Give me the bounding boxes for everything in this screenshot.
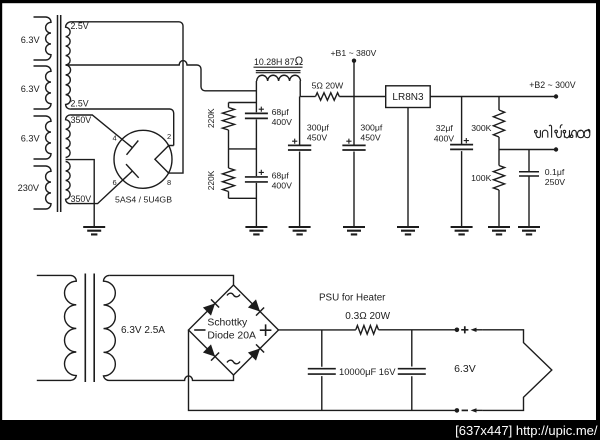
wire: output bracket chevron: [482, 330, 551, 411]
plus sign 300uf #1: [292, 139, 297, 144]
ground (32uf): [451, 227, 473, 234]
plus sign heater output: [461, 326, 468, 333]
svg-text:400V: 400V: [434, 133, 454, 143]
arrow tail (+ output): [477, 329, 483, 331]
svg-text:2.5V: 2.5V: [71, 99, 89, 109]
inductor L1 coil: [257, 75, 301, 81]
diode D3 (left to bottom): [203, 344, 215, 356]
T1 primary winding 230V (group 4): [34, 166, 52, 209]
capacitor 0.1uf plates: [519, 172, 539, 176]
svg-text:300μf: 300μf: [360, 123, 383, 133]
svg-text:6.3V: 6.3V: [21, 84, 41, 94]
svg-text:0.3Ω 20W: 0.3Ω 20W: [345, 311, 390, 322]
plus sign 300uf #2: [346, 139, 351, 144]
capacitor 300uf #2 plates: [342, 145, 365, 150]
svg-text:68μf: 68μf: [272, 107, 290, 117]
capacitor C1 68uf plates: [245, 113, 268, 118]
tube cathode/filament chevron (pins 2,8): [155, 146, 169, 174]
svg-text:10.28H 87Ω: 10.28H 87Ω: [254, 56, 304, 68]
T1 primary winding 6.3V (group 2): [34, 66, 52, 109]
svg-text:68μf: 68μf: [272, 170, 290, 180]
svg-text:0.1μf: 0.1μf: [545, 167, 565, 177]
wire: 350V center tap to ground: [66, 160, 95, 227]
T1 secondary 350V bottom winding: [66, 162, 71, 204]
wire: LR8N3 ground leg: [407, 108, 409, 228]
svg-text:6: 6: [113, 178, 117, 187]
T2 core: [85, 274, 94, 383]
capacitor 0.1uf branch: [528, 150, 530, 228]
ground (LR8N3): [397, 227, 419, 234]
svg-text:Schottky: Schottky: [207, 317, 248, 328]
svg-text:300μf: 300μf: [307, 123, 330, 133]
svg-text:[637x447] http://upic.me/: [637x447] http://upic.me/: [455, 423, 598, 438]
capacitor C2 68uf plates: [245, 177, 268, 182]
T2 secondary winding: [104, 275, 116, 380]
svg-text:10000μF 16V: 10000μF 16V: [339, 366, 396, 377]
capacitor 300uf #1 plates: [288, 145, 311, 150]
svg-text:8: 8: [167, 178, 171, 187]
wire: 2.5V top lead to pin 8 vertical: [71, 22, 183, 173]
arrow tail (- output): [477, 409, 483, 411]
wire: divider junction to node: [499, 149, 556, 151]
page border left: [0, 0, 2, 440]
svg-text:6.3V: 6.3V: [454, 363, 476, 375]
svg-text:PSU for Heater: PSU for Heater: [319, 293, 386, 304]
svg-text:LR8N3: LR8N3: [392, 92, 424, 103]
node +B2: [554, 94, 558, 98]
wire: heater + rail right: [379, 329, 457, 331]
capacitor 10000uF #2: [411, 330, 413, 411]
T1 secondary 350V top winding: [66, 115, 71, 158]
svg-text:6.3V 2.5A: 6.3V 2.5A: [121, 325, 165, 336]
plus sign C1: [259, 107, 264, 112]
tube V1 5AS4/5U4GB envelope: [114, 130, 172, 188]
wire: center tap 2.5V with hop over vertical: [66, 61, 256, 91]
diode D2 (top to right): [248, 299, 260, 311]
wire: heater + rail left: [279, 329, 356, 331]
wire: network middle junction: [229, 148, 257, 150]
plus sign 32uf: [464, 138, 469, 143]
diode D4 (bottom to right): [248, 348, 260, 360]
svg-text:350V: 350V: [71, 115, 92, 125]
resistor 100K: [493, 150, 504, 228]
wire: B+ rail left segment: [300, 96, 315, 98]
resistor R1 220K: [223, 103, 235, 149]
minus sign heater output: [462, 409, 468, 411]
T2 primary winding: [37, 275, 77, 380]
T1 primary winding 6.3V (group 1): [34, 17, 52, 60]
inductor L1 core lines: [256, 71, 301, 73]
svg-text:400V: 400V: [272, 181, 292, 191]
svg-text:Diode 20A: Diode 20A: [207, 331, 256, 342]
wire: T2 secondary top lead to bridge: [109, 275, 233, 285]
wire: inductor right lead: [299, 81, 301, 97]
resistor 5 ohm 20W: [316, 93, 340, 101]
svg-text:450V: 450V: [360, 132, 380, 142]
plus sign C2: [259, 170, 264, 175]
tube plate bar (pin 4): [127, 141, 139, 155]
svg-text:100K: 100K: [471, 173, 491, 183]
wire: 350V bottom lead diagonal to plate (pin 6): [71, 171, 132, 204]
capacitor 10000uF #1 plates: [308, 369, 336, 374]
svg-text:4: 4: [113, 134, 117, 143]
svg-text:400V: 400V: [272, 117, 292, 127]
svg-text:450V: 450V: [307, 132, 327, 142]
tube plate bar (pin 6): [126, 164, 139, 178]
wire: 350V top lead diagonal to plate (pin 4): [71, 115, 132, 148]
svg-text:6.3V: 6.3V: [21, 35, 41, 45]
AC tilde bottom: [227, 360, 240, 364]
diode D1 (left to top): [203, 303, 215, 315]
wire: T2 secondary bottom lead to bridge (hop over minus wire): [109, 375, 234, 380]
svg-text:230V: 230V: [18, 183, 40, 193]
plus sign (bridge): [260, 324, 272, 336]
wire: inductor left lead / filter bus: [255, 81, 257, 227]
svg-text:6.3V: 6.3V: [21, 133, 41, 143]
wire: network bottom bar: [229, 197, 257, 199]
page border right: [596, 0, 600, 440]
inductor underline: [254, 66, 303, 68]
svg-text:5Ω 20W: 5Ω 20W: [312, 80, 344, 90]
watermark bar: [0, 420, 600, 440]
svg-text:+B2 ~ 300V: +B2 ~ 300V: [529, 80, 576, 90]
bridge diamond: [189, 285, 279, 375]
node +B1: [352, 59, 356, 63]
label Thai: yok sai lord: [535, 125, 590, 138]
ground (0.1uf): [518, 227, 540, 234]
T1 secondary 2.5V top winding: [66, 22, 71, 65]
capacitor 10000uF #2 plates: [398, 369, 426, 374]
node heater -: [455, 408, 460, 413]
svg-text:220K: 220K: [206, 170, 216, 190]
wire: 2.5V bottom lead to tube pin 2: [71, 109, 174, 146]
svg-text:32μf: 32μf: [436, 123, 454, 133]
ground (filter bus): [245, 227, 267, 234]
wire: +B1 stub: [353, 61, 355, 97]
page border top: [0, 0, 600, 3]
minus sign (bridge): [194, 329, 205, 331]
wire: network top bar: [229, 102, 257, 104]
capacitor 32uf branch: [461, 97, 463, 228]
ground (300uf #1): [289, 227, 311, 234]
svg-text:2: 2: [167, 132, 171, 141]
svg-text:350V: 350V: [71, 194, 92, 204]
capacitor 300uf #1 branch: [299, 97, 301, 228]
ground (T1 center tap): [83, 227, 105, 234]
svg-text:220K: 220K: [206, 108, 216, 128]
svg-text:250V: 250V: [545, 177, 565, 187]
node divider output: [554, 147, 558, 151]
ground (300uf #2): [343, 227, 365, 234]
svg-text:300K: 300K: [471, 123, 491, 133]
capacitor 300uf #2 branch: [353, 97, 355, 228]
T1 primary winding 6.3V (group 3): [34, 116, 52, 159]
T1 core: [58, 15, 61, 212]
resistor 300K: [493, 97, 504, 150]
resistor 0.3 ohm 20W: [356, 326, 379, 335]
svg-text:5AS4 / 5U4GB: 5AS4 / 5U4GB: [115, 194, 172, 204]
wire: minus drop from bridge: [189, 330, 457, 410]
T1 secondary 2.5V bottom winding: [66, 65, 71, 109]
regulator LR8N3 box: [386, 86, 431, 108]
arrow left (- output): [471, 408, 477, 412]
ground (100K): [488, 227, 510, 234]
capacitor 32uf plates: [450, 145, 473, 150]
resistor R2 220K: [223, 149, 235, 198]
node heater +: [455, 328, 460, 333]
arrow left (+ output): [471, 328, 477, 332]
svg-text:+B1 ~ 380V: +B1 ~ 380V: [330, 48, 376, 58]
AC tilde top: [227, 293, 240, 297]
wire: B+ rail right of LR8N3: [430, 96, 556, 98]
wire: B+ rail middle segment: [339, 96, 385, 98]
capacitor 10000uF #1: [321, 330, 323, 411]
